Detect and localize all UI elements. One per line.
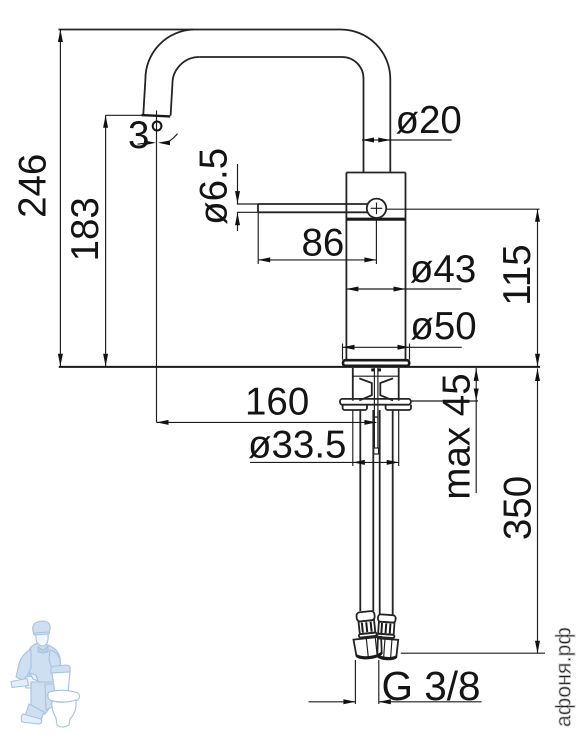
watermark toilet bbox=[48, 665, 80, 727]
left hose connector bbox=[351, 610, 384, 660]
mascot torso bbox=[27, 643, 61, 684]
svg-text:ø6.5: ø6.5 bbox=[193, 148, 236, 225]
dimension 246 bbox=[59, 30, 61, 367]
dimension 115 bbox=[387, 209, 540, 366]
spout left outer edge bbox=[143, 30, 193, 115]
mascot shoes bbox=[25, 704, 44, 720]
mascot left arm bbox=[16, 649, 31, 681]
shank tube bbox=[353, 368, 399, 401]
threaded stud bbox=[374, 368, 378, 448]
deck line bbox=[59, 366, 540, 368]
svg-text:ø33.5: ø33.5 bbox=[248, 424, 346, 467]
spout outer outline bbox=[59, 29, 391, 172]
dimension G3/8 bbox=[309, 660, 482, 704]
mascot cap bbox=[33, 621, 50, 635]
shank top line bbox=[353, 375, 399, 377]
cone bracket bbox=[359, 378, 393, 400]
mascot right arm to cistern bbox=[49, 650, 61, 672]
washer bar bbox=[340, 399, 411, 405]
svg-text:афоня.рф: афоня.рф bbox=[553, 627, 576, 727]
outlet centerline bbox=[156, 111, 158, 423]
handle ball bbox=[367, 199, 386, 218]
svg-text:G 3/8: G 3/8 bbox=[382, 663, 481, 709]
dimension o50 bbox=[343, 344, 462, 360]
mascot face bbox=[36, 633, 48, 646]
body bbox=[346, 173, 405, 361]
mascot bow tie bbox=[38, 646, 48, 653]
body seam bbox=[346, 218, 405, 221]
spout outlet face bbox=[141, 114, 170, 118]
dimension 183 bbox=[106, 115, 142, 366]
toilet cistern bbox=[52, 672, 70, 693]
dimension 160 bbox=[157, 421, 377, 423]
handle ball cross bbox=[371, 203, 383, 215]
svg-text:183: 183 bbox=[64, 197, 107, 261]
svg-text:max 45: max 45 bbox=[436, 373, 479, 499]
svg-text:350: 350 bbox=[497, 476, 540, 540]
right bracket leg bbox=[386, 405, 411, 410]
left bracket leg bbox=[343, 405, 367, 410]
left hose bbox=[360, 410, 373, 611]
svg-text:ø20: ø20 bbox=[396, 99, 462, 142]
dimension 350 bbox=[401, 369, 545, 654]
svg-text:3°: 3° bbox=[128, 114, 165, 157]
spout inner outline bbox=[199, 57, 363, 173]
toilet cistern lid bbox=[51, 665, 70, 673]
mounting nubs bbox=[371, 368, 375, 371]
svg-text:160: 160 bbox=[245, 381, 309, 424]
dimension o20 bbox=[362, 139, 452, 141]
svg-text:ø43: ø43 bbox=[410, 248, 476, 291]
stud nut bbox=[374, 448, 379, 454]
mascot hand + wrench bbox=[25, 676, 39, 688]
handle rod bbox=[258, 204, 368, 212]
svg-text:115: 115 bbox=[496, 244, 539, 305]
toilet bowl body bbox=[52, 700, 76, 727]
svg-text:ø50: ø50 bbox=[410, 305, 476, 348]
watermark mascot bbox=[11, 621, 61, 724]
svg-text:246: 246 bbox=[11, 154, 54, 218]
mascot legs bbox=[31, 682, 58, 714]
base flange bbox=[343, 360, 409, 366]
dimension o43 bbox=[346, 288, 461, 290]
toilet bowl rim bbox=[48, 690, 80, 702]
right hose bbox=[380, 410, 393, 615]
right hose connector bbox=[375, 614, 400, 660]
dimension o33.5 bbox=[250, 410, 399, 466]
svg-text:86: 86 bbox=[302, 222, 345, 265]
dimension 86 bbox=[258, 213, 376, 265]
handle rod extension lines bbox=[237, 204, 258, 212]
spout left inner edge bbox=[171, 57, 200, 116]
dimension o6.5 bbox=[237, 164, 239, 231]
dimension max45 bbox=[411, 368, 478, 493]
